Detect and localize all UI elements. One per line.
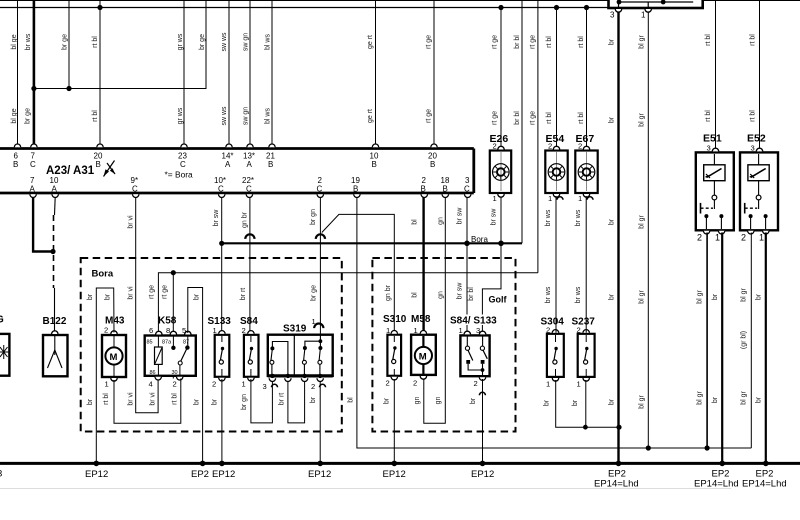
terminal 10/B bbox=[372, 144, 378, 147]
svg-text:Bora: Bora bbox=[471, 235, 488, 244]
terminal 3/C bbox=[465, 194, 471, 197]
svg-text:bl gr: bl gr bbox=[639, 290, 646, 304]
svg-text:br ws: br ws bbox=[545, 209, 552, 226]
wire bl ws x272 bbox=[271, 0, 273, 149]
fuse S237 bbox=[578, 334, 595, 377]
svg-text:B: B bbox=[430, 160, 435, 169]
svg-text:br vi: br vi bbox=[128, 215, 135, 229]
svg-text:C: C bbox=[317, 185, 323, 194]
wire br ws E67 to S237 bbox=[585, 196, 587, 333]
wire br sw E26 pin1 down bbox=[500, 196, 502, 243]
wire 10/A to B122 partly dashed bbox=[54, 197, 57, 215]
svg-text:B122: B122 bbox=[43, 316, 67, 327]
svg-text:C: C bbox=[218, 185, 224, 194]
svg-text:(gr bl): (gr bl) bbox=[741, 331, 748, 349]
svg-text:gr ws: gr ws bbox=[177, 33, 184, 50]
lamp E26 bbox=[490, 151, 511, 194]
wire U S319 pins mid bbox=[288, 381, 305, 423]
terminal 6/B bbox=[14, 144, 20, 147]
svg-text:B: B bbox=[268, 160, 273, 169]
svg-text:30: 30 bbox=[172, 370, 178, 376]
svg-text:sw gn: sw gn bbox=[243, 33, 250, 51]
svg-text:gr ws: gr ws bbox=[177, 107, 184, 124]
svg-text:bl gr: bl gr bbox=[697, 290, 704, 304]
wire rt bl M43 pin1 U to K58 pin2 bbox=[114, 379, 181, 424]
Bora connection line y243.3 bbox=[222, 242, 522, 244]
svg-text:rt ge: rt ge bbox=[426, 109, 433, 123]
svg-text:1: 1 bbox=[548, 194, 552, 203]
ground EP2 x765.8 bbox=[763, 461, 769, 467]
svg-text:rt bl: rt bl bbox=[172, 393, 179, 405]
svg-text:C: C bbox=[180, 160, 186, 169]
svg-text:C: C bbox=[30, 160, 36, 169]
wire rt ge x434 bbox=[433, 0, 435, 149]
svg-text:br gn: br gn bbox=[241, 394, 248, 410]
junction dot jog-mid bbox=[66, 86, 71, 91]
svg-text:1: 1 bbox=[242, 380, 246, 389]
svg-text:Golf: Golf bbox=[489, 295, 508, 305]
svg-text:EP12: EP12 bbox=[471, 469, 494, 480]
svg-text:br: br bbox=[712, 396, 719, 403]
terminal 19/B bbox=[354, 194, 360, 197]
switch S310 bbox=[387, 335, 401, 376]
control unit A23/A31 box bbox=[0, 149, 474, 194]
switch E52 bbox=[740, 152, 778, 230]
svg-text:2: 2 bbox=[546, 326, 550, 335]
svg-text:rt ge: rt ge bbox=[149, 285, 156, 299]
svg-text:EP12: EP12 bbox=[308, 469, 331, 480]
svg-text:2: 2 bbox=[493, 142, 497, 151]
svg-text:br sw: br sw bbox=[213, 209, 220, 227]
svg-text:br: br bbox=[756, 293, 763, 300]
svg-text:br rt: br rt bbox=[279, 393, 286, 406]
svg-text:8: 8 bbox=[166, 326, 170, 335]
svg-text:4: 4 bbox=[149, 380, 153, 389]
svg-text:bl gr: bl gr bbox=[697, 391, 704, 405]
svg-text:br: br bbox=[609, 116, 616, 123]
svg-text:bl: bl bbox=[412, 292, 419, 298]
wire br gn S84 pin1 U to S319 pin3 bbox=[251, 379, 273, 423]
terminal 10*/C bbox=[219, 194, 225, 197]
wire top bus line bbox=[0, 7, 609, 9]
svg-text:EP12: EP12 bbox=[383, 469, 406, 480]
svg-text:gn: gn bbox=[438, 217, 445, 225]
cut page edge line top bbox=[0, 0, 800, 2]
svg-text:rt bl: rt bl bbox=[546, 112, 553, 124]
svg-text:2: 2 bbox=[242, 326, 246, 335]
ground line bbox=[0, 462, 800, 465]
wire br ge x33.9 thick bbox=[33, 0, 36, 149]
svg-text:br ge: br ge bbox=[311, 285, 318, 301]
svg-text:br: br bbox=[470, 397, 477, 404]
svg-text:2: 2 bbox=[104, 326, 108, 335]
wire bl 2/B thick to M58 bbox=[422, 197, 424, 334]
terminal 20/B right bbox=[431, 144, 437, 147]
wire rt bl x100 bbox=[99, 0, 101, 149]
svg-text:G: G bbox=[0, 315, 4, 326]
wire sw gn x250 bbox=[249, 0, 251, 149]
svg-text:S84/ S133: S84/ S133 bbox=[450, 316, 497, 327]
svg-text:br ws: br ws bbox=[545, 286, 552, 303]
wire br S310 pin2 to ground bbox=[393, 379, 395, 463]
svg-text:2: 2 bbox=[386, 379, 390, 388]
svg-text:B: B bbox=[13, 160, 18, 169]
wire br S133 pin2 to ground bbox=[221, 379, 223, 463]
svg-text:1: 1 bbox=[414, 326, 418, 335]
ground EP12 x95.8 bbox=[94, 461, 100, 467]
svg-text:br rt: br rt bbox=[240, 288, 247, 301]
ground EP12 x320.2 bbox=[317, 461, 323, 467]
svg-text:1: 1 bbox=[493, 194, 497, 203]
branch diagonal to S310 bbox=[322, 214, 395, 333]
svg-text:5: 5 bbox=[182, 326, 186, 335]
svg-text:S237: S237 bbox=[572, 317, 596, 328]
line K58 pins 6/8 to top right y272.7 bbox=[158, 273, 538, 379]
wire br E51 pin1 to EP2 bbox=[721, 233, 723, 464]
svg-text:bl ws: bl ws bbox=[265, 34, 272, 50]
wire br ge x69 bbox=[68, 0, 70, 89]
wire br sw 10*/C to S133 bbox=[221, 197, 223, 334]
terminal 14*/A bbox=[226, 144, 232, 147]
svg-text:B: B bbox=[96, 160, 101, 169]
svg-text:br: br bbox=[609, 398, 616, 405]
svg-text:A: A bbox=[52, 185, 58, 194]
wire br sw 3/C to S84/S133 pin1 bbox=[466, 197, 468, 335]
switch E51 bbox=[696, 152, 734, 230]
svg-text:3: 3 bbox=[751, 144, 755, 153]
svg-text:rt ge: rt ge bbox=[162, 285, 169, 299]
svg-text:3: 3 bbox=[610, 11, 615, 20]
terminal 13*/A bbox=[247, 144, 253, 147]
ground EP12 x482.5 bbox=[480, 461, 486, 467]
svg-text:gn: gn bbox=[414, 397, 421, 405]
svg-text:6: 6 bbox=[149, 326, 153, 335]
wire rt bl x556 to E54 bbox=[556, 8, 558, 151]
svg-text:bl ge: bl ge bbox=[11, 34, 18, 49]
svg-text:2: 2 bbox=[212, 380, 216, 389]
terminal 2/C bbox=[317, 194, 323, 197]
svg-text:3: 3 bbox=[263, 382, 267, 391]
wire gr ws x184 bbox=[183, 0, 185, 149]
dashed box Golf bbox=[372, 258, 515, 432]
fuse S304 bbox=[547, 334, 564, 377]
svg-text:rt bl: rt bl bbox=[92, 36, 99, 48]
switch S133 bbox=[215, 335, 230, 377]
wire rt bl x759.5 to E52 bbox=[759, 0, 761, 152]
svg-text:ge rt: ge rt bbox=[367, 35, 374, 49]
svg-text:br: br bbox=[194, 293, 201, 300]
svg-text:sw gn: sw gn bbox=[243, 107, 250, 125]
wire gn 18/B to M58 pin2 U-loop bbox=[424, 197, 446, 423]
svg-text:rt bl: rt bl bbox=[103, 393, 110, 405]
svg-text:br ge: br ge bbox=[25, 108, 32, 124]
svg-text:S133: S133 bbox=[208, 316, 232, 327]
sensor G cut at left edge bbox=[0, 334, 9, 376]
junction dots on y448 line bbox=[646, 445, 651, 450]
faint separator line bbox=[0, 488, 731, 490]
svg-text:1: 1 bbox=[641, 11, 646, 20]
svg-text:br gn: br gn bbox=[310, 209, 317, 225]
switch block S319 bbox=[268, 335, 333, 376]
svg-text:2: 2 bbox=[413, 379, 417, 388]
wire br M43-pin2 loop to ground bbox=[96, 288, 114, 463]
svg-text:sw ws: sw ws bbox=[221, 32, 228, 52]
wire br gn 2/C to S319 pin1 bbox=[319, 197, 321, 334]
wire br x618.5 thick to EP2 bbox=[617, 12, 619, 463]
svg-text:EP14=Lhd: EP14=Lhd bbox=[742, 479, 787, 490]
svg-text:br vi: br vi bbox=[128, 286, 135, 300]
svg-text:M: M bbox=[419, 352, 427, 363]
svg-text:bl gr: bl gr bbox=[741, 391, 748, 405]
svg-text:br ws: br ws bbox=[25, 33, 32, 50]
svg-text:br: br bbox=[544, 399, 551, 406]
svg-text:gn: gn bbox=[438, 291, 445, 299]
svg-text:bl: bl bbox=[412, 219, 419, 225]
svg-text:M58: M58 bbox=[411, 314, 431, 325]
S319 interior bbox=[270, 346, 274, 350]
svg-text:br: br bbox=[212, 398, 219, 405]
wire bl ge x17 bbox=[17, 0, 19, 149]
svg-text:86: 86 bbox=[150, 370, 156, 376]
svg-text:K58: K58 bbox=[158, 316, 177, 327]
wire rt ge x501 to E26 bbox=[500, 8, 502, 151]
wire 7/A thick down-right bbox=[33, 197, 53, 252]
svg-text:C: C bbox=[246, 185, 252, 194]
svg-text:bl gr: bl gr bbox=[639, 395, 646, 409]
motor M43 bbox=[102, 335, 126, 377]
svg-text:rt ge: rt ge bbox=[530, 111, 537, 125]
svg-text:br: br bbox=[609, 218, 616, 225]
hook on gn br wire bbox=[245, 234, 254, 239]
svg-text:EP2: EP2 bbox=[191, 469, 209, 480]
svg-text:br: br bbox=[609, 293, 616, 300]
terminal 21/B bbox=[269, 144, 275, 147]
svg-text:2: 2 bbox=[474, 379, 478, 388]
svg-text:EP14=Lhd: EP14=Lhd bbox=[694, 479, 739, 490]
wire gn br 22*/C to S84 bbox=[249, 197, 251, 334]
terminal 10/A bbox=[52, 194, 58, 197]
svg-text:A: A bbox=[225, 160, 231, 169]
wire br S84/S133 pin2 to ground bbox=[482, 379, 484, 463]
svg-text:br ge: br ge bbox=[62, 34, 69, 50]
dashed box Bora bbox=[81, 258, 342, 432]
svg-text:rt bl: rt bl bbox=[705, 34, 712, 46]
terminal 1 of cut box bbox=[645, 9, 651, 12]
svg-text:gn br: gn br bbox=[385, 284, 392, 301]
terminal 22*/C bbox=[246, 194, 252, 197]
svg-text:B: B bbox=[353, 185, 358, 194]
svg-text:bl: bl bbox=[348, 397, 355, 403]
svg-text:1: 1 bbox=[459, 326, 463, 335]
wire br E52 pin1 to EP2 bbox=[765, 233, 767, 464]
wire br S304 pin1 to br bus bbox=[556, 380, 619, 427]
svg-text:rt bl: rt bl bbox=[546, 36, 553, 48]
svg-text:2: 2 bbox=[741, 233, 746, 243]
ground EP12 x221.9 bbox=[219, 461, 225, 467]
svg-text:1: 1 bbox=[578, 194, 582, 203]
svg-text:br sw: br sw bbox=[457, 282, 464, 300]
svg-text:br: br bbox=[572, 399, 579, 406]
svg-text:rt ge: rt ge bbox=[492, 35, 499, 49]
svg-text:rt bl: rt bl bbox=[578, 112, 585, 124]
svg-text:rt bl: rt bl bbox=[92, 110, 99, 122]
svg-text:3: 3 bbox=[707, 144, 711, 153]
semiconductor symbol inside A23 bbox=[104, 161, 116, 177]
svg-text:rt bl: rt bl bbox=[750, 34, 757, 46]
terminal 3 of cut box bbox=[615, 9, 621, 12]
svg-text:2: 2 bbox=[311, 382, 315, 391]
wire br S237 pin1 down bbox=[585, 380, 587, 427]
wire bl gr E52 pin2 bbox=[750, 233, 752, 449]
wire rt bl x715.5 to E51 bbox=[715, 0, 717, 152]
svg-text:br: br bbox=[87, 398, 94, 405]
svg-text:gn: gn bbox=[435, 397, 442, 405]
svg-text:br bl: br bl bbox=[514, 35, 521, 49]
svg-text:rt ge: rt ge bbox=[426, 35, 433, 49]
wire br bl x522 bbox=[521, 0, 523, 243]
wire bl gr x648.3 bbox=[647, 12, 649, 449]
svg-text:B: B bbox=[421, 185, 426, 194]
svg-text:bl ws: bl ws bbox=[265, 108, 272, 124]
svg-text:1: 1 bbox=[577, 380, 581, 389]
svg-text:rt bl: rt bl bbox=[578, 36, 585, 48]
lamp E67 bbox=[575, 151, 597, 194]
svg-text:br: br bbox=[105, 293, 112, 300]
ground EP2 x722.2 bbox=[719, 461, 725, 467]
svg-text:1: 1 bbox=[213, 326, 217, 335]
svg-text:EP12: EP12 bbox=[212, 469, 235, 480]
svg-text:EP12: EP12 bbox=[85, 469, 108, 480]
wire rt bl x586 to E67 bbox=[586, 8, 588, 151]
wire sw ws x229 bbox=[228, 0, 230, 149]
wire bl 19/B down to corner bbox=[357, 197, 751, 448]
svg-text:ge rt: ge rt bbox=[367, 109, 374, 123]
svg-text:br: br bbox=[756, 396, 763, 403]
svg-text:S304: S304 bbox=[541, 317, 565, 328]
svg-text:br bl: br bl bbox=[468, 287, 475, 301]
wire br S319 pin2 to ground bbox=[319, 381, 321, 463]
svg-text:Bora: Bora bbox=[92, 269, 114, 280]
svg-text:br: br bbox=[712, 293, 719, 300]
svg-text:br ge: br ge bbox=[199, 34, 206, 50]
svg-text:gn br: gn br bbox=[242, 211, 249, 228]
junction dot jog-left bbox=[31, 86, 36, 91]
wire br ws E54 to S304 bbox=[555, 196, 557, 333]
svg-text:br sw: br sw bbox=[491, 208, 498, 226]
svg-text:M: M bbox=[110, 352, 118, 363]
svg-text:1: 1 bbox=[759, 233, 764, 243]
svg-text:2: 2 bbox=[578, 142, 582, 151]
svg-text:br ws: br ws bbox=[575, 209, 582, 226]
switch S84 bbox=[244, 335, 259, 377]
inner bus of cut box bbox=[619, 1, 693, 3]
svg-text:A: A bbox=[30, 185, 36, 194]
terminal 18/B bbox=[442, 194, 448, 197]
wire jog horizontal y88.5 bbox=[34, 0, 206, 89]
svg-text:br sw: br sw bbox=[457, 207, 464, 225]
svg-text:C: C bbox=[464, 185, 470, 194]
svg-text:1: 1 bbox=[715, 233, 720, 243]
svg-text:br: br bbox=[87, 293, 94, 300]
svg-text:bl gr: bl gr bbox=[639, 35, 646, 49]
wire ge rt x375.5 bbox=[375, 0, 377, 149]
svg-text:3: 3 bbox=[476, 326, 480, 335]
svg-text:2: 2 bbox=[697, 233, 702, 243]
terminal 2/B bbox=[421, 194, 427, 197]
svg-text:br bl: br bl bbox=[514, 111, 521, 125]
terminal 23/C bbox=[181, 144, 187, 147]
ground EP2 x202.6 bbox=[200, 461, 206, 467]
wire rt ge x537.9 bbox=[537, 0, 539, 273]
hook on br gn wire bbox=[316, 234, 325, 239]
wire br vi 9*/C to K58 pin4 U-loop bbox=[136, 197, 158, 413]
wire br K58 pin5 loop to ground bbox=[188, 288, 203, 464]
svg-text:S310: S310 bbox=[383, 314, 407, 325]
svg-text:bl gr: bl gr bbox=[741, 288, 748, 302]
svg-text:B: B bbox=[443, 185, 448, 194]
svg-text:rt ge: rt ge bbox=[530, 35, 537, 49]
svg-text:rt bl: rt bl bbox=[705, 110, 712, 122]
connector box top right (cut) bbox=[609, 0, 703, 8]
svg-text:B: B bbox=[372, 160, 377, 169]
svg-text:sw ws: sw ws bbox=[221, 106, 228, 126]
svg-text:rt ge: rt ge bbox=[492, 111, 499, 125]
svg-text:br: br bbox=[384, 397, 391, 404]
svg-text:3: 3 bbox=[0, 469, 2, 480]
terminal 7/A bbox=[30, 194, 36, 197]
hook below S84/S133 pin2 bbox=[479, 392, 485, 395]
svg-text:rt bl: rt bl bbox=[750, 110, 757, 122]
svg-text:br: br bbox=[194, 398, 201, 405]
component B122 bbox=[43, 335, 68, 376]
svg-text:1: 1 bbox=[386, 326, 390, 335]
svg-text:bl gr: bl gr bbox=[639, 113, 646, 127]
svg-text:br: br bbox=[609, 38, 616, 45]
svg-text:2: 2 bbox=[173, 380, 177, 389]
ground EP12 x394.3 bbox=[392, 461, 398, 467]
switch S84/S133 double bbox=[460, 335, 489, 376]
terminal 7/C bbox=[31, 144, 37, 147]
wire bl gr E51 pin2 bbox=[706, 233, 708, 449]
svg-text:br ws: br ws bbox=[575, 286, 582, 303]
wire br bl L-route to S84/S133 pin3 bbox=[482, 243, 501, 334]
ground EP2 x618.5 bbox=[616, 461, 622, 467]
svg-text:S319: S319 bbox=[283, 324, 307, 335]
svg-text:*= Bora: *= Bora bbox=[165, 170, 194, 180]
terminal 9*/C bbox=[133, 194, 139, 197]
svg-text:br: br bbox=[310, 396, 317, 403]
svg-text:2: 2 bbox=[548, 142, 552, 151]
svg-text:A: A bbox=[247, 160, 253, 169]
motor M58 bbox=[411, 335, 436, 375]
svg-text:bl ge: bl ge bbox=[11, 108, 18, 123]
svg-text:87a: 87a bbox=[162, 340, 172, 346]
svg-text:C: C bbox=[132, 185, 138, 194]
terminal 20/B bbox=[97, 144, 103, 147]
svg-text:2: 2 bbox=[577, 326, 581, 335]
svg-text:1: 1 bbox=[546, 380, 550, 389]
svg-text:br vi: br vi bbox=[128, 392, 135, 406]
svg-text:br vi: br vi bbox=[150, 392, 157, 406]
svg-text:EP14=Lhd: EP14=Lhd bbox=[594, 479, 639, 490]
svg-text:1: 1 bbox=[105, 380, 109, 389]
lamp E54 bbox=[545, 151, 567, 194]
svg-text:bl gr: bl gr bbox=[639, 215, 646, 229]
svg-text:85: 85 bbox=[147, 340, 153, 346]
relay K58 bbox=[145, 336, 196, 376]
